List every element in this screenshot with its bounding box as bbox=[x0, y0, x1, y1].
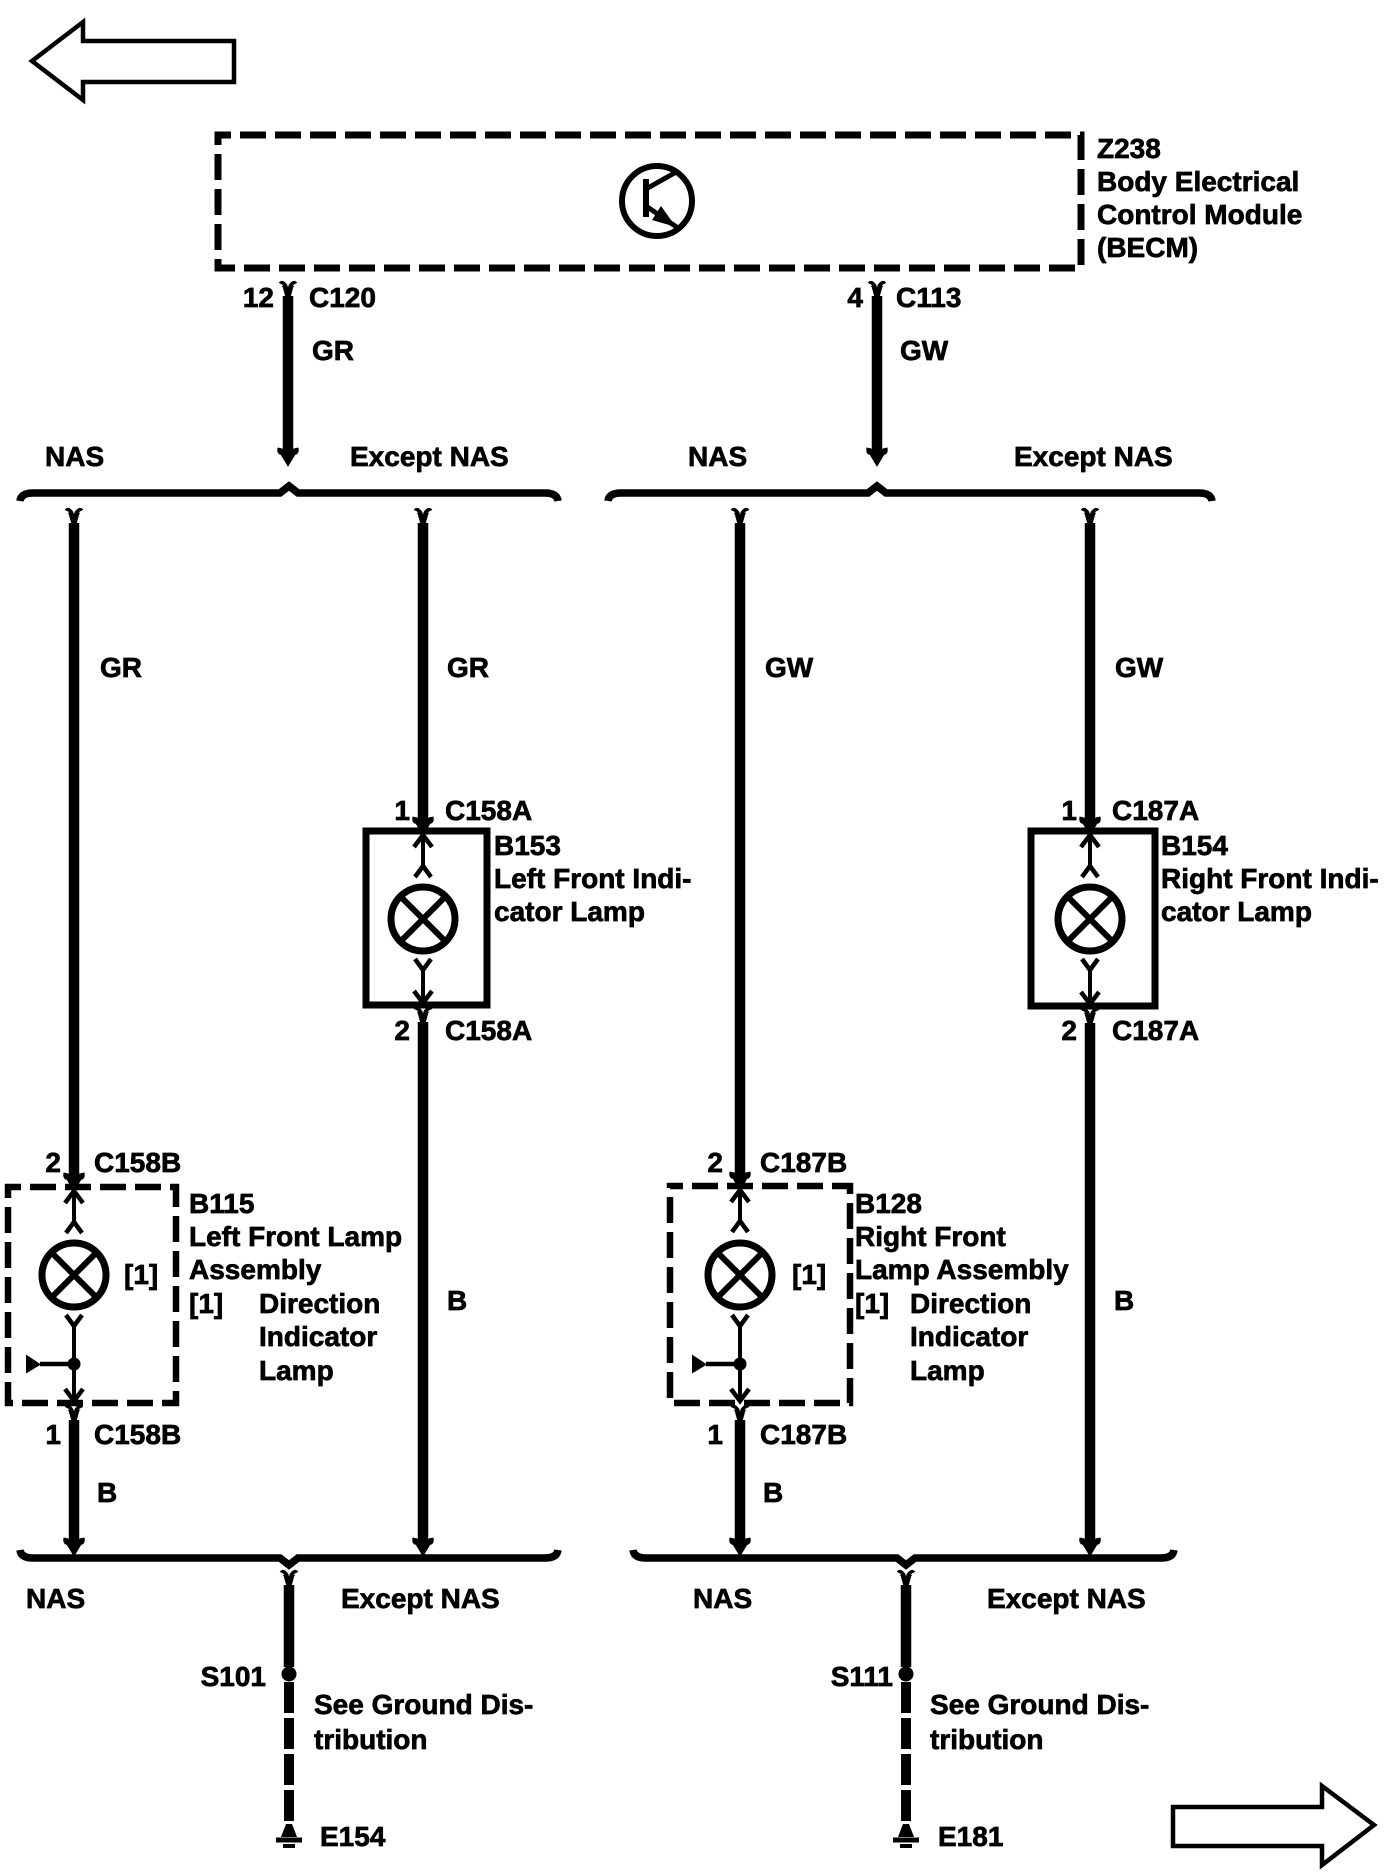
svg-text:GR: GR bbox=[312, 335, 354, 366]
svg-text:C113: C113 bbox=[896, 282, 961, 313]
svg-text:NAS: NAS bbox=[688, 441, 747, 472]
svg-text:Indicator: Indicator bbox=[259, 1321, 377, 1352]
svg-text:NAS: NAS bbox=[45, 441, 104, 472]
svg-text:GR: GR bbox=[100, 652, 142, 683]
wire: merged B down to splice S101 bbox=[282, 1572, 296, 1667]
note: See Ground Distribution (left) bbox=[314, 1689, 533, 1755]
splice S111 junction dot bbox=[899, 1667, 914, 1682]
svg-text:Indicator: Indicator bbox=[910, 1321, 1028, 1352]
label NAS (bottom right) bbox=[693, 1583, 752, 1614]
label NAS (bottom left) bbox=[26, 1583, 85, 1614]
dashed wire: S101 to ground E154 bbox=[284, 1682, 294, 1822]
connector label C158B (top) bbox=[94, 1147, 181, 1178]
wire: NAS GW from splice down to B128 pin 2 bbox=[732, 510, 749, 1186]
wire: B128 pin 1, B, down to ground splice bbox=[732, 1407, 749, 1552]
svg-text:Lamp: Lamp bbox=[910, 1355, 985, 1386]
svg-text:1: 1 bbox=[1061, 795, 1077, 826]
footnote [1] Direction Indicator Lamp (B115) bbox=[189, 1288, 380, 1386]
wire: B153 pin 2, B, down to ground splice bbox=[415, 1009, 432, 1552]
pin number 2 (C158B) bbox=[45, 1147, 61, 1178]
svg-text:C187A: C187A bbox=[1112, 795, 1199, 826]
svg-text:[1]: [1] bbox=[792, 1259, 826, 1290]
note: See Ground Distribution (right) bbox=[930, 1689, 1149, 1755]
connector label C158A (bottom) bbox=[445, 1015, 532, 1046]
ground symbol E154 bbox=[276, 1824, 302, 1846]
svg-text:B: B bbox=[1114, 1285, 1134, 1316]
svg-text:12: 12 bbox=[243, 282, 274, 313]
wire colour label GW (NAS branch) bbox=[765, 652, 814, 683]
svg-text:Control Module: Control Module bbox=[1097, 199, 1302, 230]
label E154 bbox=[320, 1821, 386, 1852]
svg-text:C187B: C187B bbox=[760, 1419, 847, 1450]
svg-text:B128: B128 bbox=[855, 1188, 922, 1219]
svg-text:[1]: [1] bbox=[124, 1259, 158, 1290]
svg-text:B: B bbox=[97, 1477, 117, 1508]
svg-text:C158A: C158A bbox=[445, 795, 532, 826]
pin number 2 (C158A) bbox=[394, 1015, 410, 1046]
connector label C120 bbox=[309, 282, 376, 313]
wire: BECM pin 12 via connector C120, GR, down to options splice bbox=[280, 283, 297, 462]
junction dot inside B128 bbox=[734, 1358, 747, 1371]
transistor symbol inside BECM bbox=[622, 166, 692, 236]
splice S101 junction dot bbox=[282, 1667, 297, 1682]
svg-text:B154: B154 bbox=[1161, 830, 1228, 861]
svg-text:cator Lamp: cator Lamp bbox=[1161, 896, 1312, 927]
wire colour label GR (NAS branch) bbox=[100, 652, 142, 683]
label B153 Left Front Indicator Lamp bbox=[494, 830, 692, 927]
label NAS (left top) bbox=[45, 441, 104, 472]
svg-text:See Ground Dis-: See Ground Dis- bbox=[314, 1689, 533, 1720]
label Except NAS (bottom left) bbox=[341, 1583, 500, 1614]
svg-text:C187B: C187B bbox=[760, 1147, 847, 1178]
wire colour label B (NAS GR branch) bbox=[97, 1477, 117, 1508]
svg-text:(BECM): (BECM) bbox=[1097, 232, 1198, 263]
horn symbol inside B128 bbox=[692, 1355, 740, 1374]
options merge brace (bottom left, NAS / Except NAS) bbox=[20, 1550, 558, 1565]
svg-text:1: 1 bbox=[707, 1419, 723, 1450]
B115 internal pin lead (top) bbox=[65, 1191, 83, 1233]
page-link arrow (right, bottom of page) bbox=[1173, 1786, 1374, 1865]
label S101 bbox=[201, 1661, 266, 1692]
pin number 1 (C158A) bbox=[394, 795, 410, 826]
svg-text:cator Lamp: cator Lamp bbox=[494, 896, 645, 927]
wire: merged B down to splice S111 bbox=[899, 1572, 913, 1667]
svg-text:See Ground Dis-: See Ground Dis- bbox=[930, 1689, 1149, 1720]
label E181 bbox=[938, 1821, 1003, 1852]
lamp B154 box bbox=[1031, 831, 1155, 1006]
label B115 Left Front Lamp Assembly bbox=[189, 1188, 402, 1285]
label NAS (right top) bbox=[688, 441, 747, 472]
lamp symbol [1] direction indicator lamp (B128) bbox=[708, 1243, 772, 1307]
horn symbol inside B115 bbox=[26, 1355, 74, 1374]
label [1] inside B128 bbox=[792, 1259, 826, 1290]
svg-text:Except NAS: Except NAS bbox=[350, 441, 509, 472]
B154 internal pin lead (top) bbox=[1081, 835, 1099, 877]
svg-text:1: 1 bbox=[394, 795, 410, 826]
svg-text:B115: B115 bbox=[189, 1188, 254, 1219]
options split brace (left, NAS / Except NAS) bbox=[20, 486, 558, 501]
label Except NAS (bottom right) bbox=[987, 1583, 1146, 1614]
svg-text:S101: S101 bbox=[201, 1661, 266, 1692]
wire: B154 pin 2, B, down to ground splice bbox=[1082, 1010, 1099, 1552]
svg-text:C158B: C158B bbox=[94, 1147, 181, 1178]
svg-text:C158A: C158A bbox=[445, 1015, 532, 1046]
pin number 2 (C187A) bbox=[1061, 1015, 1077, 1046]
label Except NAS (right top) bbox=[1014, 441, 1173, 472]
svg-text:Except NAS: Except NAS bbox=[341, 1583, 500, 1614]
svg-text:tribution: tribution bbox=[314, 1724, 428, 1755]
B154 internal pin lead (bottom) bbox=[1081, 959, 1099, 1004]
pin number 1 (C187A) bbox=[1061, 795, 1077, 826]
svg-text:GR: GR bbox=[447, 652, 489, 683]
svg-text:[1]: [1] bbox=[855, 1288, 889, 1319]
pin number 2 (C187B) bbox=[707, 1147, 723, 1178]
connector label C187A (top) bbox=[1112, 795, 1199, 826]
svg-text:Except NAS: Except NAS bbox=[1014, 441, 1173, 472]
wire colour label GW (Except NAS branch) bbox=[1115, 652, 1164, 683]
svg-text:2: 2 bbox=[1061, 1015, 1077, 1046]
label [1] inside B115 bbox=[124, 1259, 158, 1290]
svg-text:Lamp Assembly: Lamp Assembly bbox=[855, 1254, 1069, 1285]
svg-text:2: 2 bbox=[394, 1015, 410, 1046]
pin number 1 (C158B) bbox=[45, 1419, 61, 1450]
lamp symbol [1] direction indicator lamp (B115) bbox=[42, 1243, 106, 1307]
svg-text:E181: E181 bbox=[938, 1821, 1003, 1852]
module Z238 Body Electrical Control Module (BECM) dashed box bbox=[218, 135, 1081, 268]
svg-text:B: B bbox=[763, 1477, 783, 1508]
wire: B115 pin 1, B, down to ground splice bbox=[66, 1407, 83, 1552]
wire colour label B (Except NAS GR branch) bbox=[447, 1285, 467, 1316]
svg-text:C187A: C187A bbox=[1112, 1015, 1199, 1046]
options merge brace (bottom right, NAS / Except NAS) bbox=[633, 1550, 1174, 1565]
svg-text:C120: C120 bbox=[309, 282, 376, 313]
svg-text:tribution: tribution bbox=[930, 1724, 1044, 1755]
svg-text:Assembly: Assembly bbox=[189, 1254, 322, 1285]
wire colour label B (NAS GW branch) bbox=[763, 1477, 783, 1508]
svg-text:1: 1 bbox=[45, 1419, 61, 1450]
svg-text:Left Front Lamp: Left Front Lamp bbox=[189, 1221, 402, 1252]
svg-text:E154: E154 bbox=[320, 1821, 386, 1852]
svg-text:NAS: NAS bbox=[26, 1583, 85, 1614]
wire: Except NAS GR from splice down to B153 pin 1 bbox=[415, 510, 432, 831]
wire colour label GW bbox=[900, 335, 949, 366]
svg-text:Except NAS: Except NAS bbox=[987, 1583, 1146, 1614]
label B154 Right Front Indicator Lamp bbox=[1161, 830, 1379, 927]
wire: BECM pin 4 via connector C113, GW, down to options splice bbox=[869, 283, 886, 462]
lamp symbol B154 bbox=[1058, 887, 1122, 951]
connector label C187A (bottom) bbox=[1112, 1015, 1199, 1046]
svg-text:[1]: [1] bbox=[189, 1288, 223, 1319]
pin number 4 bbox=[847, 282, 863, 313]
page-link arrow (left, top of page) bbox=[32, 22, 234, 100]
label Except NAS (left top) bbox=[350, 441, 509, 472]
svg-text:Direction: Direction bbox=[910, 1288, 1031, 1319]
svg-text:2: 2 bbox=[707, 1147, 723, 1178]
svg-text:4: 4 bbox=[847, 282, 863, 313]
wire colour label B (Except NAS GW branch) bbox=[1114, 1285, 1134, 1316]
options split brace (right, NAS / Except NAS) bbox=[608, 486, 1212, 501]
connector label C187B (bottom) bbox=[760, 1419, 847, 1450]
svg-text:GW: GW bbox=[765, 652, 814, 683]
footnote [1] Direction Indicator Lamp (B128) bbox=[855, 1288, 1031, 1386]
wire: Except NAS GW from splice down to B154 pin 1 bbox=[1082, 510, 1099, 831]
B128 internal pin lead (top) bbox=[731, 1190, 749, 1232]
svg-text:Body Electrical: Body Electrical bbox=[1097, 166, 1299, 197]
connector label C113 bbox=[896, 282, 961, 313]
connector label C187B (top) bbox=[760, 1147, 847, 1178]
svg-text:Right Front Indi-: Right Front Indi- bbox=[1161, 863, 1379, 894]
B115 internal pin lead (bottom) bbox=[65, 1315, 83, 1401]
svg-text:S111: S111 bbox=[831, 1661, 893, 1692]
lamp assembly B128 dashed box bbox=[670, 1186, 850, 1403]
pin number 12 bbox=[243, 282, 274, 313]
B153 internal pin lead (bottom) bbox=[414, 959, 432, 1003]
B128 internal pin lead (bottom) bbox=[731, 1315, 749, 1401]
wire: NAS GR from splice down to B115 pin 2 bbox=[66, 510, 83, 1187]
label Z238 BECM bbox=[1097, 133, 1302, 263]
svg-text:Direction: Direction bbox=[259, 1288, 380, 1319]
svg-text:GW: GW bbox=[1115, 652, 1164, 683]
wire colour label GR (Except NAS branch) bbox=[447, 652, 489, 683]
svg-text:Right Front: Right Front bbox=[855, 1221, 1006, 1252]
svg-text:GW: GW bbox=[900, 335, 949, 366]
connector label C158A (top) bbox=[445, 795, 532, 826]
wire colour label GR bbox=[312, 335, 354, 366]
svg-text:Lamp: Lamp bbox=[259, 1355, 334, 1386]
B153 internal pin lead (top) bbox=[414, 835, 432, 877]
svg-text:C158B: C158B bbox=[94, 1419, 181, 1450]
label B128 Right Front Lamp Assembly bbox=[855, 1188, 1069, 1285]
svg-text:B153: B153 bbox=[494, 830, 561, 861]
lamp B153 box bbox=[366, 831, 487, 1005]
ground symbol E181 bbox=[893, 1824, 919, 1846]
pin number 1 (C187B) bbox=[707, 1419, 723, 1450]
junction dot inside B115 bbox=[68, 1358, 81, 1371]
svg-text:Left Front Indi-: Left Front Indi- bbox=[494, 863, 692, 894]
dashed wire: S111 to ground E181 bbox=[901, 1682, 911, 1822]
svg-text:Z238: Z238 bbox=[1097, 133, 1161, 164]
svg-text:B: B bbox=[447, 1285, 467, 1316]
lamp symbol B153 bbox=[391, 887, 455, 951]
connector label C158B (bottom) bbox=[94, 1419, 181, 1450]
svg-text:2: 2 bbox=[45, 1147, 61, 1178]
lamp assembly B115 dashed box bbox=[8, 1187, 176, 1403]
svg-text:NAS: NAS bbox=[693, 1583, 752, 1614]
label S111 bbox=[831, 1661, 893, 1692]
